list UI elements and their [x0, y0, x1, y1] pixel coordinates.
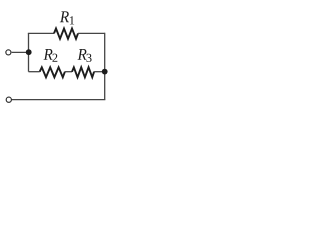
wire: right vertical — [104, 33, 106, 100]
label R2 letter R — [43, 49, 52, 60]
wire: bottom return — [12, 99, 106, 101]
wire: top terminal lead — [12, 51, 29, 53]
resistor R3 zigzag — [72, 67, 94, 77]
label R3 letter R — [77, 49, 86, 60]
wire: middle branch right segment — [94, 71, 105, 73]
node: right junction dot — [102, 69, 108, 75]
label R2 subscript 2 — [52, 54, 57, 62]
node: left junction dot — [26, 49, 32, 55]
label R1 subscript 1 — [70, 16, 74, 24]
wire: top branch left segment — [28, 32, 54, 34]
wire: middle branch left segment — [29, 71, 40, 73]
wire: middle branch center segment — [65, 71, 72, 73]
terminal: bottom-left open circle — [6, 97, 11, 102]
resistor R1 zigzag — [54, 29, 78, 39]
wire: top branch right segment — [78, 32, 105, 34]
label R1 letter R — [60, 11, 69, 22]
label R3 subscript 3 — [86, 54, 91, 62]
terminal: top-left open circle — [6, 50, 11, 55]
resistor R2 zigzag — [40, 67, 65, 77]
wire: left vertical — [28, 33, 30, 71]
